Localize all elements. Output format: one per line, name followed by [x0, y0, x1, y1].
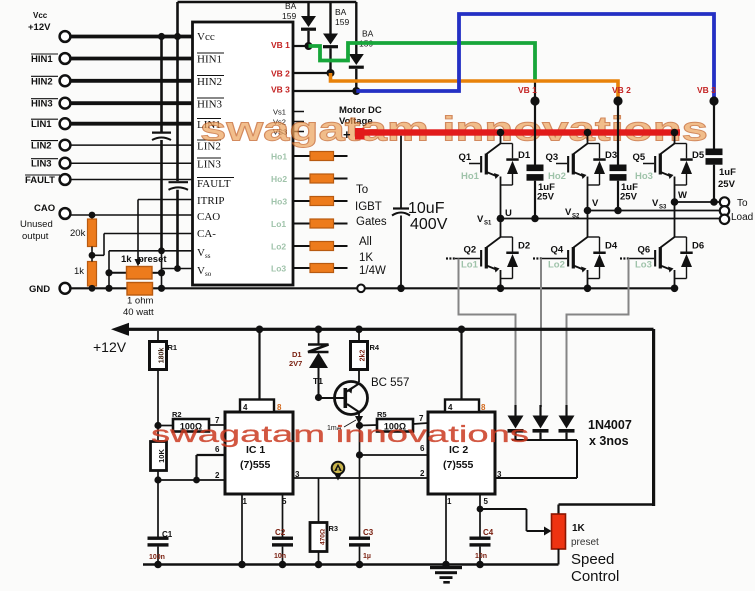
pin label VB1 — [271, 40, 290, 50]
pin stub Vs1 — [293, 111, 304, 113]
svg-text:LIN1: LIN1 — [31, 119, 52, 130]
svg-text:20k: 20k — [70, 228, 86, 239]
pin label VB3 — [271, 85, 290, 95]
IC1 555 timer body — [225, 412, 293, 494]
resistor 1 ohm 40 watt — [123, 283, 154, 319]
svg-text:1N4007: 1N4007 — [588, 418, 632, 432]
svg-text:D3: D3 — [605, 150, 617, 161]
pin label Ho2 — [271, 174, 287, 184]
wire BA159 D1 cathode to VB1 — [307, 31, 309, 46]
svg-text:2V7: 2V7 — [289, 359, 302, 368]
wire Ho2 gate lead — [293, 178, 348, 180]
svg-text:Ho3: Ho3 — [635, 171, 653, 182]
svg-text:(7)555: (7)555 — [443, 459, 474, 471]
resistor 1k vertical — [74, 252, 97, 292]
wire bus A to Vss — [160, 140, 163, 251]
wire phase V line — [588, 210, 722, 212]
svg-text:preset: preset — [571, 537, 599, 548]
terminal load V — [720, 206, 729, 215]
svg-text:Speed: Speed — [571, 551, 614, 568]
svg-text:10n: 10n — [274, 553, 286, 560]
resistor 10K — [151, 426, 167, 484]
preset 1k shunt — [105, 254, 167, 279]
svg-text:HIN2: HIN2 — [31, 76, 53, 87]
pin label LIN3 — [197, 158, 221, 171]
label To IGBT Gates — [355, 184, 387, 277]
svg-text:1/4W: 1/4W — [359, 265, 386, 277]
capacitor bus A (Vcc-Vss) — [152, 133, 171, 140]
svg-text:C4: C4 — [483, 528, 494, 537]
pin label Vso — [197, 265, 212, 278]
wire Lo3 gate to D9 gray — [567, 259, 629, 408]
pin label Lo2 — [271, 242, 286, 252]
wire wiper arrow to speed preset — [527, 527, 552, 536]
IC2 pin4/8 tab — [445, 400, 486, 413]
driver IC U1 body — [193, 22, 294, 285]
resistor gate 1K #2 — [310, 174, 334, 183]
svg-text:Lo1: Lo1 — [461, 260, 479, 271]
svg-text:V: V — [565, 207, 572, 218]
terminal load U — [720, 215, 729, 224]
label Motor DC Voltage — [339, 105, 382, 127]
wire GND rail — [70, 287, 675, 289]
wire HIN1 input to IC — [71, 57, 193, 61]
svg-text:Load: Load — [731, 212, 753, 223]
wire Ho3 gate lead — [293, 200, 348, 202]
svg-text:Lo2: Lo2 — [271, 242, 286, 252]
svg-text:1k: 1k — [121, 254, 132, 265]
wire pin2 line IC1 — [158, 477, 225, 484]
wire phase U line — [497, 215, 721, 223]
preset 1K speed control — [552, 514, 620, 585]
wire diode cathode bus — [495, 440, 577, 478]
svg-text:T1: T1 — [313, 376, 323, 386]
svg-text:Ho2: Ho2 — [548, 171, 566, 182]
wire VB2 orange — [331, 73, 619, 101]
terminal LIN1 input — [31, 118, 70, 130]
wire BA159 D1 anode — [307, 2, 309, 16]
wire bus B to Vso — [176, 190, 179, 269]
svg-text:Ho1: Ho1 — [271, 152, 287, 162]
pin label HIN2 — [197, 76, 224, 89]
pin label VS3 — [273, 128, 287, 137]
svg-text:R4: R4 — [370, 343, 380, 352]
svg-text:D6: D6 — [692, 241, 704, 252]
svg-text:Q2: Q2 — [464, 245, 477, 256]
svg-text:4: 4 — [448, 403, 453, 412]
svg-text:100n: 100n — [149, 554, 165, 561]
svg-text:V: V — [477, 214, 484, 225]
transistor Q1 IGBT — [459, 129, 531, 219]
label IC2 pins — [419, 414, 502, 506]
svg-text:HIN3: HIN3 — [31, 99, 53, 110]
wire Lo1 gate to D7 gray — [459, 259, 516, 408]
pin label CAO — [197, 211, 220, 223]
pin label HIN1 — [197, 53, 224, 66]
svg-text:1µ: 1µ — [363, 553, 371, 560]
terminal HIN1 input — [31, 53, 70, 65]
svg-text:BA: BA — [285, 1, 297, 11]
pin label Vs1 — [273, 108, 286, 117]
transistor Q2 IGBT — [446, 215, 530, 292]
svg-text:1K: 1K — [572, 523, 586, 534]
svg-text:25V: 25V — [718, 179, 736, 190]
svg-text:preset: preset — [138, 254, 167, 265]
wire preset left to GND — [105, 273, 165, 292]
transistor Q4 IGBT — [533, 207, 618, 292]
capacitor bootstrap 1uF #2 — [610, 101, 639, 214]
svg-text:Lo3: Lo3 — [635, 260, 652, 271]
wire Lo2 gate lead — [293, 245, 348, 247]
node W label — [652, 190, 687, 211]
svg-text:Gates: Gates — [356, 216, 387, 228]
svg-text:BC 557: BC 557 — [371, 377, 409, 389]
pin label Vss — [197, 247, 211, 260]
pin label Lo1 — [271, 219, 286, 229]
svg-text:All: All — [359, 236, 372, 248]
capacitor bootstrap 1uF #3 — [706, 101, 737, 206]
pin label Ho3 — [271, 197, 287, 207]
svg-text:159: 159 — [282, 11, 296, 21]
wire IC1 pin1 to rail — [238, 494, 246, 568]
terminal HIN3 input — [31, 98, 70, 110]
svg-text:Vcc: Vcc — [197, 31, 215, 43]
terminal LIN3 input — [31, 158, 70, 170]
diode BA159 #1 — [301, 16, 316, 31]
svg-text:Lo3: Lo3 — [271, 264, 286, 274]
svg-text:2: 2 — [420, 469, 425, 478]
svg-text:A: A — [336, 468, 340, 474]
transistor T1 BC557 — [313, 376, 409, 415]
svg-text:S3: S3 — [659, 205, 667, 211]
svg-text:VB 2: VB 2 — [612, 85, 631, 95]
wire T1 collector — [355, 412, 363, 429]
svg-text:Lo1: Lo1 — [271, 219, 286, 229]
node VB2 bridge — [612, 85, 631, 106]
resistor R5 100ohm — [360, 410, 429, 432]
svg-text:40 watt: 40 watt — [123, 307, 154, 318]
svg-text:S2: S2 — [572, 214, 580, 220]
wire IC2 supply — [458, 326, 466, 400]
wire preset supply top — [559, 505, 654, 515]
svg-text:CAO: CAO — [34, 203, 55, 214]
IC1 pin4/8 tab — [240, 400, 282, 413]
svg-text:D1: D1 — [292, 350, 302, 359]
svg-text:ITRIP: ITRIP — [197, 195, 225, 207]
watermark bottom — [151, 421, 529, 447]
svg-text:1K: 1K — [359, 252, 373, 264]
wire Vcc input to IC — [71, 35, 193, 39]
svg-text:10K: 10K — [157, 449, 166, 463]
wire Lo3 gate lead — [293, 267, 348, 269]
capacitor C3 1u — [349, 528, 374, 568]
svg-text:swagatam innovations: swagatam innovations — [151, 421, 529, 447]
wire IC2 pin1 to ground — [442, 494, 450, 568]
wire IC1 supply — [256, 326, 264, 400]
wire DC+ red rail — [364, 129, 680, 135]
svg-text:D5: D5 — [692, 150, 705, 161]
terminal GND — [29, 283, 70, 295]
capacitor bootstrap 1uF #1 — [527, 101, 556, 222]
node VB1 bridge — [518, 85, 540, 106]
node VB3 bridge — [697, 85, 719, 106]
svg-text:2k2: 2k2 — [360, 350, 367, 362]
svg-text:V: V — [592, 198, 599, 209]
svg-text:Ho1: Ho1 — [461, 171, 480, 182]
terminal motor - open circle — [357, 285, 365, 293]
wire phase W line — [675, 201, 722, 203]
zener D1 2V7 — [289, 326, 329, 398]
wire Vss line — [109, 247, 193, 272]
resistor 20k — [70, 212, 97, 256]
svg-text:4: 4 — [243, 403, 248, 412]
wire VB2 pin to diode node — [293, 69, 335, 77]
svg-text:CA-: CA- — [197, 228, 216, 240]
svg-text:HIN1: HIN1 — [31, 54, 53, 65]
svg-text:VB 3: VB 3 — [697, 85, 716, 95]
wire CAO to IC — [70, 214, 193, 216]
svg-text:output: output — [22, 231, 49, 242]
transistor Q5 IGBT — [633, 129, 705, 202]
wire VB1 pin to diode node — [293, 42, 313, 50]
wire +12V rail — [93, 323, 654, 355]
diode 1N4007 #2 — [533, 405, 549, 440]
svg-text:GND: GND — [29, 284, 50, 295]
svg-text:Q3: Q3 — [546, 152, 559, 163]
svg-text:Ho3: Ho3 — [271, 197, 287, 207]
pin label VB2 — [271, 69, 290, 79]
svg-text:To: To — [737, 198, 748, 209]
svg-text:Unused: Unused — [20, 219, 53, 230]
capacitor C1 100n — [148, 480, 173, 568]
wire collector to IC2 pin6 — [356, 426, 428, 459]
wire Vcc bus A vertical — [158, 33, 165, 132]
resistor R1 180k — [150, 331, 178, 429]
svg-text:Vcc: Vcc — [33, 11, 48, 20]
svg-text:VB 2: VB 2 — [271, 69, 290, 79]
wire Vso line — [162, 265, 193, 272]
pin label LIN1 — [197, 119, 221, 132]
wire LIN1 input to IC — [71, 122, 193, 126]
ground symbol — [430, 566, 462, 584]
svg-text:D1: D1 — [518, 150, 531, 161]
svg-text:1 ohm: 1 ohm — [127, 296, 153, 307]
svg-text:V: V — [197, 265, 205, 277]
terminal load W — [720, 197, 729, 206]
wire Lo2 gate to D8 gray — [540, 259, 542, 408]
wire bootstrap top rail — [178, 1, 357, 4]
pin label CA- — [197, 228, 216, 240]
IC2 555 timer body — [428, 412, 495, 494]
svg-text:Q4: Q4 — [551, 245, 564, 256]
svg-text:LIN3: LIN3 — [31, 159, 52, 170]
terminal HIN2 input — [31, 75, 70, 87]
svg-text:470Ω: 470Ω — [320, 529, 327, 545]
svg-text:8: 8 — [277, 403, 282, 412]
wire FAULT input to IC — [71, 179, 193, 181]
svg-text:FAULT: FAULT — [25, 175, 55, 186]
pin label LIN2 — [197, 140, 221, 153]
svg-text:D4: D4 — [605, 241, 618, 252]
svg-text:S1: S1 — [484, 221, 492, 227]
svg-text:R1: R1 — [168, 343, 178, 352]
wire Ho1 gate lead — [293, 155, 348, 157]
wire LIN3 input to IC — [71, 162, 193, 164]
wire BA159 D3 anode — [355, 2, 357, 54]
resistor R4 2k2 — [351, 326, 380, 383]
wire IC1 pin3 to IC2 pin2 — [293, 477, 428, 479]
wire BA159 D2 anode — [329, 2, 331, 34]
svg-text:10uF: 10uF — [408, 200, 445, 217]
svg-text:10n: 10n — [475, 553, 487, 560]
label To Load — [731, 198, 753, 223]
svg-text:(7)555: (7)555 — [240, 459, 271, 471]
wire VB3 blue — [356, 14, 714, 101]
resistor gate 1K #4 — [310, 219, 334, 228]
svg-text:180k: 180k — [159, 348, 166, 364]
label BA159 #1 — [282, 1, 297, 21]
diode BA159 #3 — [349, 54, 364, 69]
svg-text:+12V: +12V — [28, 22, 51, 33]
pin label HIN3 — [197, 98, 224, 111]
svg-text:R5: R5 — [377, 410, 387, 419]
wire VB3 pin to diode node — [293, 87, 360, 95]
svg-text:1: 1 — [243, 497, 248, 506]
svg-text:1k: 1k — [74, 266, 84, 277]
svg-text:Control: Control — [571, 568, 619, 585]
svg-text:VB 1: VB 1 — [518, 85, 537, 95]
svg-text:Q5: Q5 — [633, 152, 646, 163]
wire right border down — [652, 329, 655, 506]
svg-text:LIN2: LIN2 — [31, 141, 52, 152]
node V label — [565, 198, 599, 220]
label BA159 #2 — [335, 7, 349, 27]
svg-text:D2: D2 — [518, 241, 530, 252]
svg-text:U: U — [505, 208, 512, 219]
svg-text:x 3nos: x 3nos — [589, 434, 629, 448]
wire pin6 loop IC1 — [197, 455, 226, 480]
label IC1 pins — [215, 416, 300, 506]
diode 1N4007 #3 — [559, 405, 575, 440]
wire Vss node vertical — [161, 251, 163, 288]
svg-text:ss: ss — [205, 252, 211, 260]
svg-text:W: W — [678, 190, 687, 201]
terminal motor + (red square) — [343, 127, 365, 142]
pin label Vcc — [197, 31, 215, 43]
svg-text:C2: C2 — [275, 528, 286, 537]
label 1N4007 x 3nos — [588, 418, 632, 448]
diode BA159 #2 — [323, 34, 338, 49]
node U label — [477, 208, 512, 227]
svg-text:Q1: Q1 — [459, 152, 472, 163]
svg-text:25V: 25V — [620, 192, 638, 203]
svg-text:CAO: CAO — [197, 211, 220, 223]
watermark top — [200, 111, 708, 149]
node 10uF bottom — [397, 285, 405, 293]
terminal Vcc +12V input — [28, 11, 70, 42]
transistor Q6 IGBT — [620, 198, 704, 292]
wire BA159 D2 cathode to VB2 — [329, 48, 331, 73]
svg-text:R3: R3 — [329, 524, 339, 533]
svg-text:1uF: 1uF — [719, 167, 736, 178]
svg-text:1: 1 — [447, 497, 452, 506]
pin label ITRIP — [197, 195, 225, 207]
svg-text:159: 159 — [335, 17, 349, 27]
resistor gate 1K #6 — [310, 264, 334, 273]
svg-text:R2: R2 — [172, 410, 182, 419]
svg-text:FAULT: FAULT — [197, 178, 231, 190]
capacitor bus B (Vcc-Vso) — [169, 182, 189, 190]
svg-text:HIN2: HIN2 — [197, 76, 222, 88]
svg-text:IGBT: IGBT — [355, 201, 382, 213]
svg-text:Lo2: Lo2 — [548, 260, 565, 271]
svg-text:V: V — [652, 198, 659, 209]
svg-text:5: 5 — [484, 497, 489, 506]
pin label Vs2 — [273, 118, 286, 127]
diode 1N4007 #1 — [508, 405, 524, 440]
pin label Ho1 — [271, 152, 287, 162]
svg-text:C3: C3 — [363, 528, 374, 537]
resistor R2 100ohm — [158, 410, 225, 432]
wire HIN3 input to IC — [71, 101, 193, 105]
svg-text:VB 1: VB 1 — [271, 40, 290, 50]
wire bottom rail — [143, 563, 559, 566]
wire VB1 green — [309, 43, 536, 101]
svg-text:To: To — [356, 184, 368, 196]
terminal LIN2 input — [31, 140, 70, 152]
wire HIN2 input to IC — [71, 79, 193, 83]
pin stub Vs2 — [293, 121, 304, 123]
label 1mA — [327, 420, 356, 432]
capacitor C2 10n — [272, 494, 293, 568]
svg-text:HIN3: HIN3 — [197, 99, 223, 111]
svg-text:Ho2: Ho2 — [271, 174, 287, 184]
resistor gate 1K #3 — [310, 197, 334, 206]
svg-text:so: so — [205, 270, 212, 278]
svg-text:400V: 400V — [410, 216, 448, 233]
resistor gate 1K #5 — [310, 242, 334, 251]
svg-text:+: + — [343, 127, 351, 142]
meter A marker — [332, 462, 345, 481]
pin label Lo3 — [271, 264, 286, 274]
svg-text:C1: C1 — [162, 530, 173, 539]
svg-text:BA: BA — [362, 29, 374, 39]
pin label FAULT — [197, 178, 234, 191]
svg-text:25V: 25V — [537, 192, 555, 203]
svg-text:2: 2 — [215, 471, 220, 480]
resistor gate 1K #1 — [310, 152, 334, 161]
svg-text:LIN3: LIN3 — [197, 159, 221, 171]
pin stub VS3 — [293, 131, 304, 133]
terminal FAULT input — [25, 174, 70, 186]
svg-text:V: V — [197, 247, 205, 259]
wire LIN2 input to IC — [71, 144, 193, 146]
svg-text:HIN1: HIN1 — [197, 54, 222, 66]
label BA159 #3 — [359, 29, 374, 49]
wire ITRIP to preset wiper — [135, 200, 193, 267]
capacitor 10uF 400V — [392, 136, 448, 289]
resistor R3 470 — [310, 478, 338, 568]
svg-text:8: 8 — [481, 403, 486, 412]
svg-text:BA: BA — [335, 7, 347, 17]
terminal CAO unused output — [20, 203, 70, 242]
wire collector node down to C3 — [359, 455, 361, 537]
wire BA159 D3 cathode to VB3 — [355, 69, 357, 91]
capacitor C4 10n — [470, 509, 494, 568]
transistor Q3 IGBT — [546, 129, 618, 211]
svg-text:+12V: +12V — [93, 339, 127, 355]
wire Vcc bus B vertical — [174, 2, 181, 181]
